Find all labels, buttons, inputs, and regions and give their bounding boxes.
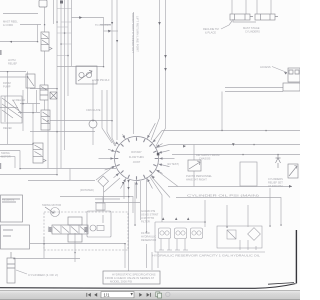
svg-text:CHASSIS: CHASSIS <box>199 157 211 161</box>
svg-text:ROTARY: ROTARY <box>131 150 142 154</box>
svg-text:FILTER: FILTER <box>141 231 150 235</box>
svg-text:CYLINDERS: CYLINDERS <box>245 30 260 34</box>
svg-text:U ROTTTR: U ROTTTR <box>141 216 154 220</box>
svg-text:HYDRAULIC: HYDRAULIC <box>141 235 156 239</box>
svg-text:AT 3000 PSI: AT 3000 PSI <box>268 184 283 188</box>
svg-text:GUARD PSI: GUARD PSI <box>141 209 156 213</box>
svg-text:SWING: SWING <box>1 151 10 155</box>
svg-text:LO RELIEF: LO RELIEF <box>12 98 26 102</box>
svg-text:BOOM HOIST CYLINDER RET: BOOM HOIST CYLINDER RET <box>131 13 134 54</box>
svg-text:PHOTO PERSONNEL: PHOTO PERSONNEL <box>186 174 212 178</box>
svg-text:SWING MOTOR: SWING MOTOR <box>42 203 61 207</box>
svg-text:TO CHASSIS: TO CHASSIS <box>95 23 111 27</box>
svg-text:MODEL 2000 PSI: MODEL 2000 PSI <box>110 279 132 283</box>
svg-text:HAVE 24T RIGHT: HAVE 24T RIGHT <box>186 178 207 182</box>
svg-text:LIFT RETURN LINE PORT: LIFT RETURN LINE PORT <box>136 16 139 53</box>
svg-text:FLOW THRU: FLOW THRU <box>129 155 144 159</box>
svg-text:CYLINDER OIL PSI (MAIN): CYLINDER OIL PSI (MAIN) <box>187 194 259 198</box>
svg-text:FILTER: FILTER <box>141 220 150 224</box>
svg-text:CIRCULATE: CIRCULATE <box>86 108 101 112</box>
svg-text:HYDRAULIC RESERVOIR CAPACITY 1: HYDRAULIC RESERVOIR CAPACITY 1 GAL HYDRA… <box>152 254 261 258</box>
svg-text:RELIEF SET: RELIEF SET <box>268 181 283 185</box>
svg-text:AIR SUPPLY FROM: AIR SUPPLY FROM <box>196 153 219 157</box>
svg-text:CYLINDER (1 OF 2): CYLINDER (1 OF 2) <box>28 273 58 277</box>
svg-text:FROM: FROM <box>3 81 11 85</box>
svg-text:CYLINDERS: CYLINDERS <box>268 177 283 181</box>
svg-text:RELIEF: RELIEF <box>8 62 17 66</box>
svg-text:HI PSI: HI PSI <box>8 58 16 62</box>
svg-text:JOINT: JOINT <box>133 160 141 164</box>
svg-text:RESERVOIR: RESERVOIR <box>141 238 156 242</box>
svg-text:MOTOR: MOTOR <box>1 155 11 159</box>
svg-text:(ROTATED): (ROTATED) <box>80 188 94 192</box>
svg-text:RELIEF: RELIEF <box>3 126 12 130</box>
svg-text:1/1: 1/1 <box>104 293 111 298</box>
svg-text:LOAD PSI RLF: LOAD PSI RLF <box>92 78 110 82</box>
svg-text:& CORD: & CORD <box>3 23 13 27</box>
svg-text:& PLACE: & PLACE <box>205 31 216 35</box>
svg-text:(24 TEST): (24 TEST) <box>167 162 179 166</box>
svg-text:US AG STRNT: US AG STRNT <box>141 213 159 217</box>
svg-text:PUMP: PUMP <box>3 85 11 89</box>
svg-text:RECLINE TM: RECLINE TM <box>203 27 219 31</box>
svg-text:MAST REEL: MAST REEL <box>3 20 18 24</box>
svg-text:MAST STAGE: MAST STAGE <box>243 26 260 30</box>
svg-text:RESERVE: RESERVE <box>2 198 15 202</box>
svg-text:ACCESS: ACCESS <box>260 65 271 69</box>
